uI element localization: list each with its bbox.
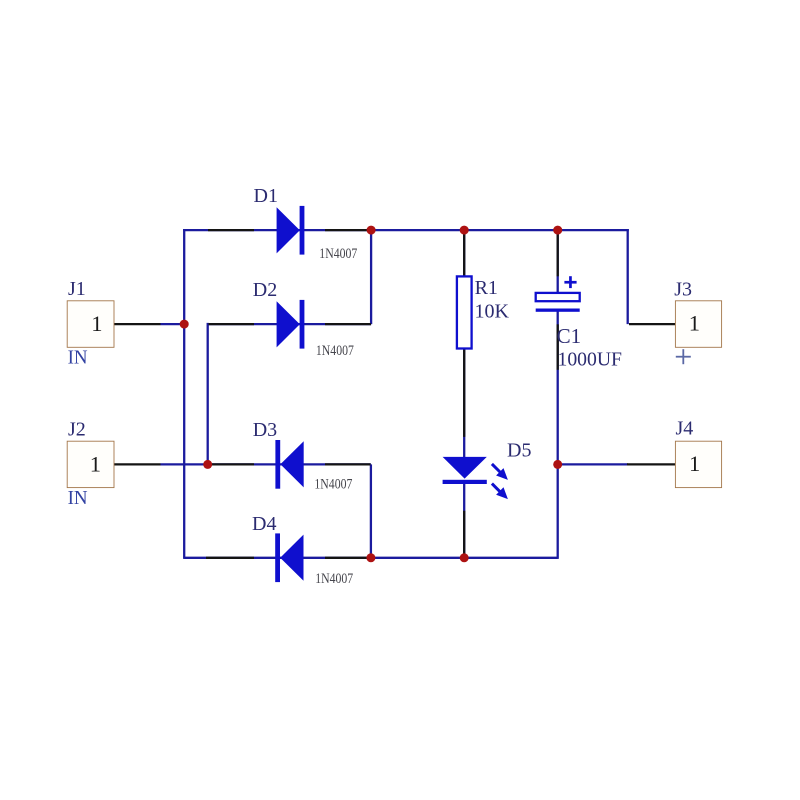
- diode D4 (1N4007) symbol: [275, 533, 303, 582]
- junction: top rail at D1/D2 node: [367, 226, 376, 235]
- svg-text:J4: J4: [676, 418, 694, 440]
- junction: bottom rail at D3/D4 node: [366, 553, 375, 562]
- svg-text:D3: D3: [253, 419, 277, 441]
- svg-text:C1: C1: [557, 324, 582, 348]
- diode D3 (1N4007) symbol: [275, 440, 303, 489]
- svg-text:J3: J3: [674, 278, 692, 300]
- connector J1 box: [67, 301, 114, 348]
- wire: top rail net: [183, 229, 629, 231]
- capacitor C1 plus polarity mark: [564, 276, 576, 288]
- svg-text:1000UF: 1000UF: [558, 348, 623, 370]
- svg-text:D1: D1: [254, 185, 278, 207]
- svg-text:1N4007: 1N4007: [314, 477, 352, 493]
- svg-text:IN: IN: [68, 346, 88, 368]
- wire: R1/D5 column net: [463, 229, 465, 559]
- pin: D5 lower pin (black): [463, 511, 465, 556]
- wire: right vertical C1/J4 net (x=558): [557, 229, 559, 294]
- junction: top rail at R1: [460, 226, 469, 235]
- pin: J1 pin 1 (black): [114, 323, 161, 325]
- junction: top rail at C1: [553, 226, 562, 235]
- resistor R1 body: [457, 276, 472, 348]
- wire: C1 lower net to bottom rail: [557, 312, 559, 559]
- svg-text:J1: J1: [68, 278, 86, 300]
- svg-text:1: 1: [91, 311, 102, 336]
- pin: J2 pin 1 (black): [114, 463, 161, 465]
- wire: J3 drop vertical net (x=628): [627, 229, 629, 324]
- svg-text:1N4007: 1N4007: [315, 571, 353, 587]
- wire: D2 row net: [208, 323, 371, 325]
- svg-text:J2: J2: [68, 419, 86, 441]
- pin: D1 pins (black): [208, 229, 371, 231]
- wire: D3-D4 corner vertical net (x=371): [370, 464, 372, 557]
- svg-text:D4: D4: [252, 513, 276, 535]
- wire: J4 row net: [558, 463, 628, 465]
- pin: R1 pins (black): [463, 233, 465, 437]
- capacitor C1 symbol: [536, 293, 580, 312]
- svg-text:1: 1: [689, 311, 700, 336]
- diode D1 (1N4007) symbol: [277, 206, 305, 255]
- LED D5 emission arrow 2: [492, 484, 508, 500]
- pin: J3 pin 1 (black): [629, 323, 675, 325]
- wire: mid vertical net D1-D2 (x=371): [370, 230, 372, 324]
- wire: J1 row net to junction: [161, 323, 185, 325]
- LED D5 symbol: [443, 457, 487, 484]
- svg-text:D2: D2: [253, 279, 277, 301]
- wire: bottom rail net: [184, 557, 558, 559]
- connector J3 box: [675, 301, 721, 348]
- pin: D3 pins (black): [212, 463, 371, 465]
- svg-text:1: 1: [689, 451, 700, 476]
- wire: D2 drop vertical net (x=208): [207, 323, 209, 465]
- pin: D2 pins (black): [209, 323, 372, 325]
- svg-text:D5: D5: [507, 440, 531, 462]
- junction: J1 node on left vertical: [180, 320, 189, 329]
- pin: J4 pin 1 (black): [627, 463, 675, 465]
- connector J4 box: [675, 441, 721, 487]
- pin: C1 pins (black): [557, 233, 559, 370]
- svg-text:10K: 10K: [475, 301, 510, 323]
- svg-text:1: 1: [90, 452, 101, 477]
- svg-text:1N4007: 1N4007: [316, 343, 354, 359]
- wire: J2/D3 row net: [161, 463, 371, 465]
- svg-text:1N4007: 1N4007: [319, 246, 357, 262]
- label: J3 plus polarity mark: [676, 349, 691, 364]
- junction: J2 row at D2 drop: [203, 460, 212, 469]
- junction: bottom rail at D5: [460, 553, 469, 562]
- LED D5 emission arrow 1: [492, 464, 508, 480]
- junction: J4 row at right vertical: [553, 460, 562, 469]
- wire: left vertical net (x=184): [183, 229, 185, 559]
- connector J2 box: [67, 441, 114, 487]
- diode D2 (1N4007) symbol: [277, 300, 305, 349]
- svg-text:R1: R1: [475, 277, 498, 299]
- pin: D4 pins (black): [206, 557, 371, 559]
- svg-text:IN: IN: [68, 487, 88, 509]
